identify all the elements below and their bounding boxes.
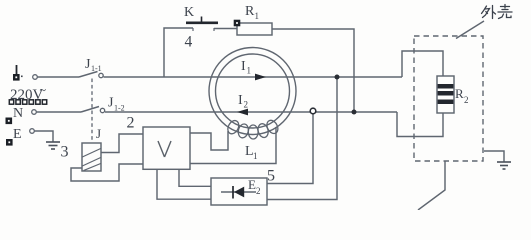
switch J1-1: [79, 72, 103, 78]
junction circle on N line: [310, 108, 316, 114]
label E2: [248, 177, 261, 196]
diode: [221, 186, 256, 199]
wire L line step to R2 top: [402, 51, 443, 77]
wire K branch: [164, 28, 193, 77]
svg-text:5: 5: [267, 168, 275, 185]
pushbutton K: [186, 17, 218, 23]
junction dot: [352, 110, 357, 115]
svg-text:I: I: [238, 93, 243, 108]
wire K to R1: [214, 28, 237, 30]
svg-text:3: 3: [61, 144, 69, 161]
wire R2 bottom to N line: [397, 112, 443, 137]
svg-text:R: R: [245, 4, 255, 19]
label L1: [245, 144, 258, 161]
wire V bottom stub A: [157, 169, 211, 199]
label J1-2: [108, 96, 125, 113]
earth symbol left: [46, 142, 60, 149]
K right contact tick: [213, 28, 215, 31]
svg-text:1: 1: [255, 11, 260, 21]
wire E2 lower to L line: [267, 77, 337, 200]
wire V to winding right: [190, 127, 276, 164]
wire coil left to V bottom-left: [71, 164, 143, 181]
winding L1 loops: [226, 118, 280, 139]
K left contact tick: [192, 28, 194, 31]
wire coil right to V: [101, 134, 143, 153]
wire N line: [105, 111, 397, 113]
label R2: [455, 86, 469, 105]
V glyph: [158, 141, 171, 157]
toroid transformer: [209, 48, 296, 135]
wire V bottom stub B: [179, 169, 211, 186]
wire L to switch: [38, 76, 80, 78]
resistor R2: [437, 76, 454, 113]
label I1: [241, 59, 251, 76]
enclosure dashed box: [414, 36, 483, 161]
rectifier box E2: [211, 178, 267, 205]
terminal E: [6, 127, 34, 146]
svg-text:I: I: [241, 59, 246, 74]
svg-text:2: 2: [256, 186, 261, 196]
earth symbol right: [484, 151, 504, 162]
svg-text:1-1: 1-1: [91, 64, 102, 73]
wire N to switch: [37, 111, 82, 113]
svg-text:1: 1: [247, 66, 252, 76]
resistor R1: [237, 23, 272, 35]
壳: [504, 5, 506, 9]
wire E to earth: [35, 131, 54, 142]
label I2: [238, 93, 248, 110]
dashed gang link: [91, 79, 93, 143]
label 外壳 (drawn strokes): [482, 5, 513, 19]
terminal L: [13, 65, 37, 81]
wire V to winding left: [190, 131, 228, 150]
case drop wire: [418, 161, 445, 210]
svg-text:1: 1: [253, 151, 258, 161]
switch J1-2: [81, 107, 105, 113]
wire E2 upper to N line: [267, 114, 313, 184]
svg-text:4: 4: [185, 34, 193, 51]
amplifier V box: [143, 127, 190, 169]
junction dot on L line: [335, 75, 340, 80]
svg-text:K: K: [184, 5, 194, 20]
外: [482, 6, 487, 14]
svg-text:N: N: [13, 106, 23, 121]
relay coil J: [82, 143, 101, 171]
svg-text:E: E: [13, 127, 22, 142]
svg-text:1-2: 1-2: [114, 104, 125, 113]
svg-text:R: R: [455, 86, 464, 101]
terminal N: [6, 106, 37, 124]
svg-text:J: J: [96, 126, 101, 141]
arrow I1: [255, 74, 266, 81]
svg-text:E: E: [248, 177, 256, 192]
svg-text:~: ~: [40, 83, 47, 97]
label J1-1: [85, 57, 102, 73]
wire L line: [104, 76, 403, 78]
wire R1 to N line: [272, 29, 354, 112]
svg-text:2: 2: [244, 100, 249, 110]
svg-text:2: 2: [464, 95, 469, 105]
leader line: [456, 21, 484, 39]
arrow I2: [237, 109, 248, 116]
dotted squares row: [9, 100, 46, 104]
svg-text:2: 2: [127, 115, 135, 132]
